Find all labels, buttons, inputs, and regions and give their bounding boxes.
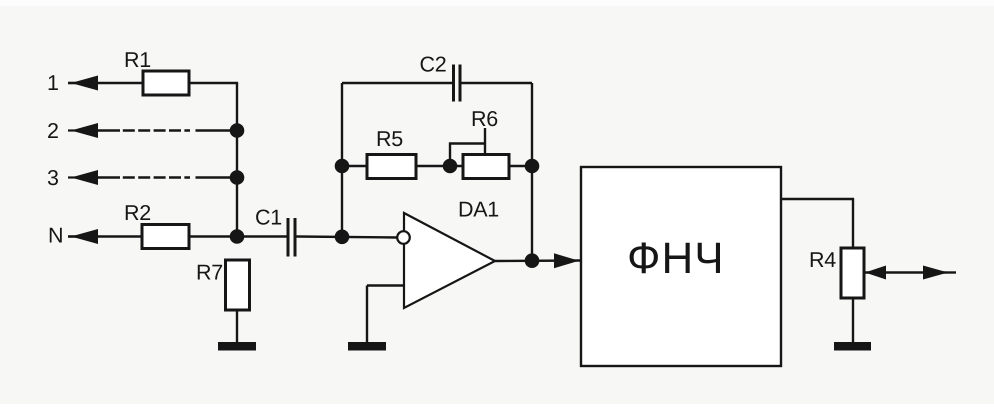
wire FNCH output to R4 xyxy=(781,199,854,248)
ground below R4 xyxy=(834,342,871,351)
svg-text:ФНЧ: ФНЧ xyxy=(627,234,725,283)
svg-text:R5: R5 xyxy=(376,127,403,151)
label input 1 xyxy=(47,71,59,95)
label C2 xyxy=(419,53,446,77)
svg-text:R6: R6 xyxy=(471,107,498,131)
svg-text:C1: C1 xyxy=(255,206,282,230)
svg-text:2: 2 xyxy=(47,119,59,143)
resistor R1 xyxy=(143,71,189,95)
arrow input 1 xyxy=(68,76,98,91)
label FNCH xyxy=(627,234,725,283)
wire R6 wiper bracket xyxy=(449,128,486,166)
label input N xyxy=(48,224,63,248)
label R6 xyxy=(471,107,498,131)
wire feedback left vertical xyxy=(341,83,343,237)
wire R1 to bus corner xyxy=(189,82,238,84)
label R7 xyxy=(196,261,223,285)
wire op-amp noninverting input to ground xyxy=(367,286,404,344)
resistor R5 xyxy=(367,155,416,179)
node R5 left xyxy=(335,159,350,174)
node op-amp output xyxy=(525,253,540,268)
resistor R2 xyxy=(142,225,189,249)
node junction row2 xyxy=(230,123,245,138)
wire R4 to ground xyxy=(852,298,854,343)
svg-text:R2: R2 xyxy=(124,201,151,225)
wire R7 to ground xyxy=(236,310,238,343)
node R6 right xyxy=(525,159,540,174)
ground below op-amp input xyxy=(348,342,386,351)
wire bidirectional output line xyxy=(865,271,956,273)
wire R5 to R6 xyxy=(416,165,463,167)
svg-text:R1: R1 xyxy=(124,48,151,72)
label input 3 xyxy=(47,166,59,190)
svg-text:1: 1 xyxy=(47,71,59,95)
wire row1 input to R1 xyxy=(68,82,143,84)
resistor R4 xyxy=(841,248,864,298)
label R4 xyxy=(809,248,836,272)
node C1 right / feedback xyxy=(335,230,350,245)
arrow left toward R4 xyxy=(865,266,886,280)
arrow input N xyxy=(68,229,98,244)
svg-text:N: N xyxy=(48,224,63,248)
svg-text:DA1: DA1 xyxy=(458,198,499,222)
node junction N / C1 / R7 xyxy=(230,229,245,244)
wire R2 to C1 xyxy=(189,235,287,237)
capacitor C1 xyxy=(288,218,295,257)
wire C1 to op-amp input xyxy=(297,237,398,238)
label C1 xyxy=(255,206,282,230)
ground below R7 xyxy=(218,342,256,351)
arrow input 2 xyxy=(68,123,98,138)
wire C2 right xyxy=(461,82,532,84)
svg-text:3: 3 xyxy=(47,166,59,190)
label R5 xyxy=(376,127,403,151)
svg-text:R7: R7 xyxy=(196,261,223,285)
op-amp DA1 xyxy=(397,213,495,308)
resistor R6 xyxy=(463,155,509,179)
svg-text:C2: C2 xyxy=(419,53,446,77)
node junction row3 xyxy=(230,170,245,185)
wire op-amp output xyxy=(495,259,581,262)
wire vertical bus xyxy=(236,83,238,237)
resistor R7 xyxy=(226,260,250,310)
node R5-R6 junction xyxy=(443,159,458,174)
arrow into FNCH block xyxy=(554,253,579,268)
wire node to R5 xyxy=(342,165,367,167)
wire row2 dashed xyxy=(98,129,237,131)
arrow right output xyxy=(923,266,948,280)
wire row3 dashed xyxy=(98,176,237,178)
wire C2 left xyxy=(342,82,452,84)
wire rowN input to R2 xyxy=(68,235,142,237)
label R1 xyxy=(124,48,151,72)
label DA1 xyxy=(458,198,499,222)
label R2 xyxy=(124,201,151,225)
arrow input 3 xyxy=(68,170,98,185)
wire R6 to right vertical xyxy=(509,165,532,167)
block FNCH (low-pass filter) xyxy=(581,167,781,366)
wire feedback right vertical xyxy=(531,83,533,261)
svg-text:R4: R4 xyxy=(809,248,836,272)
label input 2 xyxy=(47,119,59,143)
capacitor C2 xyxy=(454,65,461,102)
